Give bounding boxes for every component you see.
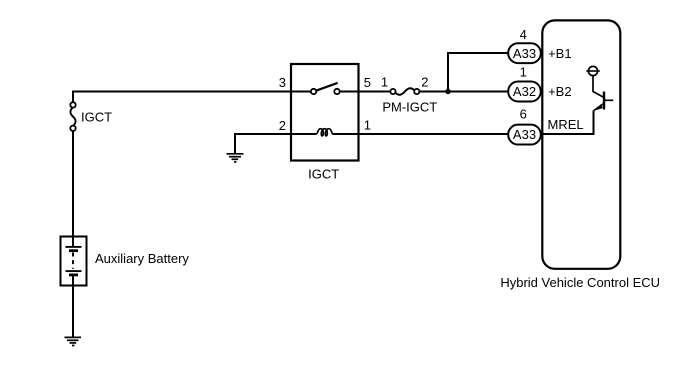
ECU box — [542, 20, 620, 268]
svg-text:A32: A32 — [513, 84, 536, 99]
svg-text:2: 2 — [279, 118, 286, 133]
wire: battery column up to top row and across to relay pin 3 — [73, 92, 291, 103]
wire: battery to ground — [72, 285, 74, 337]
svg-text:2: 2 — [421, 75, 428, 90]
relay switch blade — [316, 83, 338, 91]
svg-text:IGCT: IGCT — [308, 167, 339, 182]
terminal circle — [588, 66, 597, 75]
battery box — [61, 237, 87, 286]
junction node — [445, 89, 450, 94]
relay switch contacts — [311, 89, 316, 94]
svg-text:1: 1 — [520, 65, 527, 80]
base stub — [604, 99, 613, 101]
transistor Q (inside ECU) — [586, 66, 613, 110]
svg-text:5: 5 — [364, 75, 371, 90]
relay coil — [316, 129, 333, 136]
connector A32 pin 1 (+B2) — [508, 82, 541, 102]
collector lead — [593, 76, 604, 98]
ground (battery) — [65, 337, 82, 345]
wire: relay pin 2 to ground — [235, 134, 291, 153]
svg-text:A33: A33 — [513, 127, 536, 142]
wire: PM-IGCT to junction to A32 — [419, 91, 508, 93]
wire: MREL into ECU to transistor emitter — [542, 111, 594, 135]
relay switch wire segments — [291, 91, 311, 93]
ground (relay coil) — [227, 154, 244, 162]
svg-text:1: 1 — [381, 75, 388, 90]
svg-text:IGCT: IGCT — [81, 110, 112, 125]
wire: junction up and across to A33 +B1 — [448, 53, 508, 92]
svg-text:4: 4 — [520, 27, 527, 42]
svg-text:1: 1 — [364, 118, 371, 133]
svg-text:Hybrid Vehicle Control ECU: Hybrid Vehicle Control ECU — [500, 275, 660, 290]
wire: fuse bottom to battery top — [72, 131, 74, 238]
base bar — [603, 92, 605, 110]
connector A33 pin 4 (+B1) — [508, 43, 541, 63]
svg-text:6: 6 — [520, 107, 527, 122]
fuse IGCT — [70, 102, 75, 131]
battery cells — [66, 237, 82, 286]
emitter lead with arrow — [594, 103, 604, 110]
svg-text:Auxiliary Battery: Auxiliary Battery — [95, 251, 189, 266]
svg-text:PM-IGCT: PM-IGCT — [382, 99, 437, 114]
svg-text:+B2: +B2 — [548, 84, 572, 99]
svg-text:+B1: +B1 — [548, 46, 572, 61]
svg-text:MREL: MREL — [548, 117, 584, 132]
svg-text:A33: A33 — [513, 46, 536, 61]
relay coil wire segments — [235, 133, 316, 135]
relay box IGCT — [291, 64, 359, 161]
svg-text:3: 3 — [279, 75, 286, 90]
connector A33 pin 6 (MREL) — [508, 125, 541, 145]
fuse PM-IGCT — [390, 88, 419, 95]
